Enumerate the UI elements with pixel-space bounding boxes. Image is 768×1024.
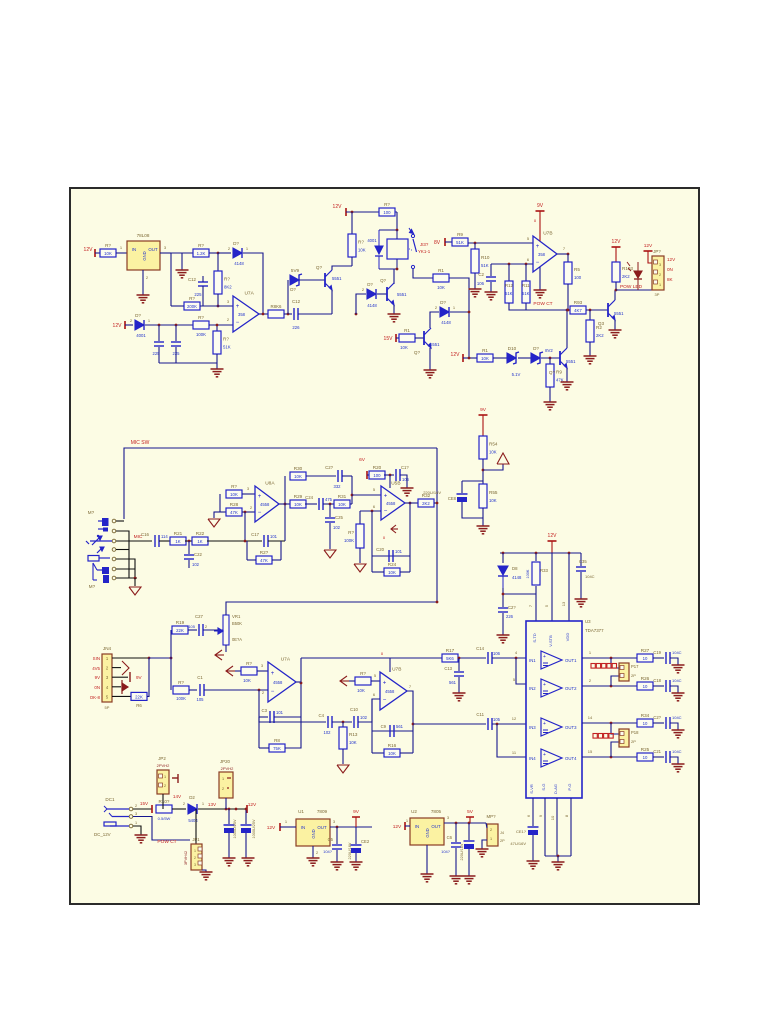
pin1 u1 [285,819,288,824]
svg-text:10: 10 [643,684,648,689]
svg-text:CE8: CE8 [448,496,457,501]
ground after C18 [672,693,685,701]
JN4 pin4 stub [112,686,121,688]
resistor R29 10K [290,494,306,508]
junction bus-diode [468,311,471,314]
ground small under C15 [401,488,414,496]
label C1? [401,465,409,470]
svg-text:TDA7377: TDA7377 [585,628,604,633]
svg-text:GND: GND [425,828,430,837]
ground under C6 [450,876,463,884]
value 100K rotated [526,569,530,578]
pin3 u1 [333,819,336,824]
Q4 emitter to ground [566,368,568,382]
net ON jn4 [94,685,100,690]
net label 13V [208,802,217,807]
svg-text:220U/16V: 220U/16V [460,843,464,860]
svg-text:R5: R5 [574,267,580,272]
svg-text:0.5/5W: 0.5/5W [158,816,171,821]
svg-text:JI3?: JI3? [420,242,429,247]
C22 lower stub [188,560,190,568]
svg-text:5K6: 5K6 [446,656,454,661]
svg-text:D?: D? [290,287,296,292]
JP18 pin2 wire [611,742,619,757]
svg-text:15V: 15V [140,801,149,806]
connector JP3 3-pin [652,256,664,290]
ground under CE5 [242,858,255,866]
svg-text:R?: R? [178,680,184,685]
value 101 C20 [395,549,403,554]
resistor R12 47K [546,364,564,387]
junction node B [217,305,220,308]
svg-text:R8K6: R8K6 [271,304,283,309]
svg-text:2P: 2P [631,739,636,744]
ground under C5 [331,862,344,870]
svg-text:12V: 12V [548,533,558,539]
MP pin2 wire [486,823,487,828]
svg-text:104?: 104? [441,849,451,854]
svg-text:10K: 10K [338,502,346,507]
R12 stub [508,264,510,281]
R13 to gnd [342,749,344,764]
svg-text:10: 10 [643,755,648,760]
svg-text:12V: 12V [84,247,94,253]
svg-text:C11: C11 [476,712,484,717]
diode D2 4001 input [130,313,151,338]
label R33 [540,568,548,573]
pin2 C27 [205,624,208,629]
JP1 to gnd [202,870,206,872]
svg-text:3: 3 [659,263,661,267]
svg-text:100: 100 [373,473,381,478]
value 51K R12 [505,291,513,296]
signal ground under R13 [337,765,349,773]
svg-text:12: 12 [512,716,517,721]
net label 12V lower [113,323,123,329]
capacitor C10 102 [354,716,358,728]
value 1000U/25V b [252,819,256,838]
svg-text:561: 561 [449,680,457,685]
Q2 collector to diode row [430,312,439,328]
amplifier channel 1 inside U3 [529,651,577,669]
svg-text:P18: P18 [631,730,639,735]
u1 out wire [330,826,372,828]
value 102 C25 [333,525,341,530]
svg-text:U7A: U7A [281,657,291,663]
tick net 9V [130,672,143,682]
C22 stub [188,541,190,554]
value 225 C1 [153,351,161,356]
ground under 78L08 [137,295,150,303]
svg-text:2P: 2P [631,673,636,678]
R bias to gnd [359,548,361,563]
x mark near U5B [383,535,386,540]
ground after C2? [672,730,685,738]
Q2 emitter to ground [429,348,431,370]
svg-text:−: − [258,510,262,516]
resistor R8 75K [269,738,285,752]
junction C25 top [329,503,332,506]
resistor R13 10K [339,727,358,749]
wire OUT1 out [582,657,637,659]
label U2 [411,809,417,814]
CE8 top stub [461,481,463,493]
svg-text:SIN: SIN [93,656,100,661]
capacitor CE8 220U [457,494,468,502]
svg-text:0E?A: 0E?A [232,637,242,642]
wire R26 to cap [653,685,664,687]
pin 2 label [589,678,592,683]
svg-text:U7B: U7B [392,667,401,673]
svg-text:106: 106 [477,281,485,286]
value 226 coupling [292,325,300,330]
net label 9V divider [480,407,487,413]
output column [284,476,286,541]
jack pin2 to fuse [133,808,152,810]
label C17 [251,532,259,537]
svg-text:9V: 9V [537,203,544,209]
svg-text:9V: 9V [136,675,143,680]
svg-text:C21: C21 [653,749,661,754]
svg-text:Q?: Q? [380,278,386,283]
svg-text:4001: 4001 [136,333,146,338]
svg-text:R20: R20 [373,465,382,470]
svg-text:POW LED: POW LED [620,284,643,290]
svg-text:IN: IN [132,247,136,252]
wire C18 to gnd [670,686,678,693]
svg-text:2PVH2: 2PVH2 [221,766,234,771]
wire pin3 row to feedback node [171,252,193,254]
junction output R5 [567,253,570,256]
svg-text:4558: 4558 [385,689,395,694]
svg-text:POW CT: POW CT [157,839,176,845]
junction relay top [396,229,399,232]
svg-text:10K: 10K [230,492,238,497]
svg-text:+: + [543,752,546,758]
long mix wire [301,657,442,659]
jack bottom row [116,577,137,579]
svg-text:9V: 9V [95,675,100,680]
transistor Q2 5551 [414,328,440,355]
R47K fb drop left [246,541,248,560]
svg-text:226: 226 [292,325,300,330]
svg-text:2: 2 [222,787,224,791]
label 2PVH2 jp20 [221,766,234,771]
relay bracket bottom [379,268,397,270]
U5B vcc stub [389,475,391,488]
wire 100K to opamp inv [209,324,233,326]
label 3P under JP3 [655,292,660,297]
capacitor C11 105 [488,718,492,730]
capacitor C17 101 [264,535,268,547]
CE2 to gnd [355,853,357,862]
junction minus fb [371,510,374,513]
svg-text:OUT: OUT [148,247,158,252]
svg-text:R1: R1 [482,348,488,353]
ground under R55 [477,526,490,534]
C5 to gnd [336,850,338,862]
label C13 [444,666,452,671]
resistor R14 100K [344,524,364,548]
value 5.1V [512,372,521,377]
svg-text:D10: D10 [508,346,517,351]
fb left drop [371,511,373,572]
resistor R28 47K [226,502,242,516]
svg-text:C6: C6 [447,835,453,840]
wire C19 to gnd [670,658,678,665]
C4 row entry [301,721,326,723]
label JP18 [631,730,639,735]
R9 to vertical bus [449,278,469,358]
svg-text:5404: 5404 [188,818,198,823]
relay bracket top [379,229,397,231]
svg-text:105: 105 [188,624,195,629]
capacitor C35 104C [576,567,586,571]
wire mixer bus vertical [436,448,438,602]
svg-text:114: 114 [161,534,168,539]
svg-text:U1: U1 [298,809,304,814]
svg-text:4V5: 4V5 [92,666,100,671]
label M? top [88,510,95,515]
svg-text:R13: R13 [349,732,358,737]
label C21 [653,749,661,754]
label JP3 [653,249,661,254]
resistor R93 4K7 [570,300,586,314]
svg-text:D?: D? [367,282,373,287]
svg-text:R12: R12 [505,283,513,288]
svg-text:2: 2 [659,273,661,277]
svg-text:R103: R103 [622,266,633,271]
svg-text:R?: R? [246,661,252,666]
svg-text:10K: 10K [294,502,302,507]
power tick 15V bottom [151,805,153,813]
svg-text:51K: 51K [522,291,530,296]
svg-text:CE1?: CE1? [516,829,527,834]
svg-text:R55: R55 [489,490,498,495]
ground under C2 [485,292,498,300]
C2 stub [490,264,492,276]
svg-text:R34: R34 [641,713,650,718]
svg-text:10K: 10K [104,251,112,256]
svg-text:+: + [543,654,546,660]
R11 bottom stub [525,303,527,310]
resistor R34 10 [637,713,653,727]
net label 12V u2 [393,824,402,830]
label M? bottom [89,584,96,589]
label 5P [105,705,110,710]
svg-text:4148: 4148 [234,261,244,266]
R5 bottom to POW CT row [567,284,569,310]
svg-text:104?: 104? [323,849,333,854]
resistor R11 10K zener row [477,348,493,362]
tick to R11 [463,357,477,359]
signal chevron 1 [215,650,224,660]
pin8 drop [570,798,572,856]
capacitor C9 561 [390,725,394,737]
R7 to U7A plus [257,670,268,672]
label U1 [298,809,304,814]
svg-text:358: 358 [238,312,246,317]
chevron to R7 [235,670,241,672]
signal arrow mark [391,525,398,533]
pin 1 label [589,650,592,655]
resistor R8 10K relay [348,234,366,257]
label 2P jp17 [631,673,636,678]
svg-text:9V: 9V [353,809,360,815]
svg-text:10K: 10K [357,688,365,693]
label C6 [447,835,453,840]
label C9 [381,724,387,729]
x mark on vcc [534,218,537,223]
svg-text:IN: IN [415,824,419,829]
junction CE5 tap [245,808,248,811]
svg-text:5V9: 5V9 [291,268,300,273]
svg-text:R?: R? [198,315,204,320]
junction out mixer [300,682,303,685]
pin10 drop [556,798,558,856]
wire node to D feedback diode [218,252,231,254]
JN4 pin2 stub [112,667,121,669]
svg-text:104C: 104C [585,574,595,579]
value 10K under R9 [437,285,445,290]
power tick 6V [366,471,368,479]
ground under C13 [453,693,466,701]
ground after C19 [672,665,685,673]
pin 1 label [120,245,123,250]
net label POW LED [620,284,643,290]
svg-text:1: 1 [135,821,137,825]
junction rail VDD [568,552,571,555]
jack pin5-6 bus down [134,569,136,578]
C3 to out column [274,716,301,718]
pin 7 rot [528,604,533,607]
Q1 collector up [332,266,352,270]
capacitor C24 475 [319,498,323,510]
resistor R15 100K lower [173,680,189,694]
svg-text:R33: R33 [540,568,548,573]
wire cap to emitter column [298,313,332,315]
junction out node [409,502,412,505]
value 0.5/5W [158,816,171,821]
fuse to D2 [172,808,186,810]
LED D5 power indicator [627,262,642,290]
R11 stub [525,264,527,281]
junction bus mic out [436,502,439,505]
svg-text:C19: C19 [653,650,661,655]
net 9V jn4 [95,675,100,680]
svg-text:DC1: DC1 [105,797,115,802]
net label 15V bottom [140,801,149,806]
label C10 [350,707,358,712]
svg-text:1: 1 [222,777,224,781]
junction OUT2 tap [610,685,613,688]
svg-text:4148: 4148 [512,575,522,580]
svg-text:J4: J4 [500,831,504,835]
junction C5 tap [336,826,339,829]
R6 to bus corner [147,658,149,696]
svg-text:JP2: JP2 [158,756,166,761]
op-amp U7A first stage [227,291,259,333]
svg-text:OUT3: OUT3 [565,725,577,730]
svg-text:D?: D? [440,300,446,305]
6V tick to R20 [367,474,370,476]
amplifier channel 4 inside U3 [529,749,577,767]
resistor R11 51K comp [522,281,530,303]
connector JP2 [157,770,169,794]
svg-text:2: 2 [164,784,166,788]
svg-text:OUT: OUT [431,824,441,829]
svg-text:R?: R? [384,202,390,207]
wire R25 to cap [653,756,664,758]
junction C22 top [188,540,191,543]
signal chevron 3 [340,676,349,686]
capacitor CE3 220U [464,841,475,849]
value 100K lower [176,696,186,701]
signal chevron 2 [226,666,235,676]
net label 12V R103 [612,239,622,245]
capacitor CE4 1000U/25V [224,825,235,833]
R16in to U7B plus [371,680,380,682]
U7B out column [407,691,413,753]
jack pin3 POW CT [133,817,190,841]
svg-text:R11: R11 [522,283,530,288]
JP2 stub down [162,794,164,809]
x mark on mix wire [381,651,384,656]
svg-text:10K: 10K [489,450,497,455]
jack pin2-4 bus down [128,550,130,579]
svg-text:3: 3 [194,863,196,867]
capacitor C23 332 [338,470,342,482]
svg-text:7809: 7809 [317,809,328,814]
connector JN4 5-pin [102,654,112,702]
svg-text:2: 2 [135,804,137,808]
svg-text:1: 1 [490,837,492,841]
junction R51K top [216,324,219,327]
svg-text:R6: R6 [136,703,142,708]
svg-text:C17: C17 [251,532,259,537]
wire tick to D2 [125,324,133,326]
svg-text:Q?: Q? [316,265,323,270]
fuse R105 0.5A [156,799,172,813]
junction base-R47K [549,357,552,360]
svg-text:101: 101 [270,534,278,539]
svg-text:−: − [384,509,388,515]
C6 to gnd [455,848,457,876]
CE2 stub [355,827,357,844]
zener D7 8V2 [531,346,543,364]
R2 to ground [589,342,591,356]
signal ground under R14 [354,564,366,572]
R28 left [214,511,226,513]
value 104C C18 [672,678,682,683]
svg-text:C13: C13 [444,666,452,671]
ground under bracket [552,862,565,870]
svg-text:+: + [271,671,275,677]
svg-text:C25: C25 [335,515,343,520]
svg-text:C20: C20 [376,547,384,552]
power flag at JP2 [172,774,178,783]
minus fb col u7b [371,699,373,753]
MP pin1 to gnd [482,840,487,849]
label D2 [189,795,195,800]
wire MIC SW long [124,448,437,519]
CE8 top link [462,480,483,482]
power tick 9V u1 [352,817,360,827]
svg-text:2K2: 2K2 [422,501,430,506]
svg-text:IN1: IN1 [529,658,536,663]
C17 to output column [268,540,285,542]
minus fb column [258,690,260,717]
